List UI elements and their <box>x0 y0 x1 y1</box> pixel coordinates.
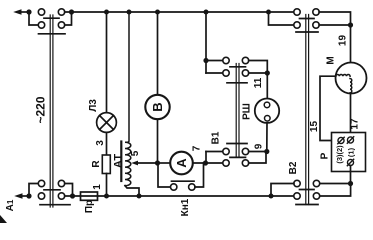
pushbutton Kn1 contacts <box>171 184 196 190</box>
wire L-bend to lower contact (left pole of switch B) <box>29 12 38 25</box>
wire L-bend right side top switch <box>65 12 72 25</box>
motor M field winding <box>336 75 350 77</box>
wire relay bottom lead <box>350 165 352 183</box>
lamp L3 <box>97 113 117 133</box>
wire to socket RSh <box>266 73 268 99</box>
relay terminal (1) <box>347 159 353 165</box>
wire node 19 to motor <box>350 25 352 79</box>
switch V2 lower crossbar <box>296 204 318 206</box>
svg-text:В2: В2 <box>288 161 299 174</box>
wire top rail <box>65 11 294 13</box>
ammeter A <box>170 152 193 175</box>
switch V1 left bracket <box>205 152 207 164</box>
node junction dot 9 <box>264 149 269 154</box>
switch V1 lower section contacts <box>223 148 249 166</box>
svg-text:Р: Р <box>320 152 331 159</box>
relay terminal (2)-side <box>338 137 344 143</box>
switch V2 upper crossbar <box>296 31 318 33</box>
resistor R <box>102 155 110 174</box>
pushbutton Kn1 right leg <box>195 163 204 187</box>
svg-text:1: 1 <box>92 184 103 190</box>
wire ammeter to switch V1 <box>193 162 223 164</box>
switch B bottom section crossbar <box>40 204 70 206</box>
switch V2 link double line <box>306 15 309 205</box>
voltmeter V <box>145 95 169 119</box>
svg-text:7: 7 <box>192 145 203 151</box>
node junction dots on bottom rail <box>104 194 274 199</box>
wire voltmeter to tap wire <box>157 119 159 163</box>
wire lamp branch from top rail <box>106 12 108 113</box>
wire L-bend right side bottom switch <box>65 184 73 197</box>
svg-text:(1): (1) <box>347 147 356 157</box>
node junction dot <box>348 181 353 186</box>
wire top mains lead with arrow <box>13 9 29 15</box>
switch V2 upper bridge bar <box>300 18 315 20</box>
switch V1 link double line <box>236 64 239 158</box>
wire socket to node 9 <box>266 123 268 152</box>
wire lamp to resistor <box>106 132 108 155</box>
svg-text:Пр: Пр <box>84 200 95 213</box>
wire motor left lead to relay terminal <box>320 76 338 140</box>
svg-text:Л3: Л3 <box>88 99 99 112</box>
switch V1 right side wires to node 9 <box>249 151 267 153</box>
node junction dot <box>70 193 75 198</box>
wires to upper section contacts <box>206 60 223 62</box>
svg-text:15: 15 <box>309 121 320 133</box>
wire tap to ammeter <box>158 162 171 164</box>
pushbutton Kn1 bypass left leg <box>158 163 171 187</box>
wire bottom rail left of fuse <box>65 195 81 197</box>
motor M <box>336 63 367 94</box>
wire bottom mains lead with arrow <box>14 193 29 199</box>
node junction dot <box>203 160 208 165</box>
fuse Pr <box>81 192 98 200</box>
switch V1 upper bridge bar <box>230 66 246 68</box>
switch V2 upper section contacts <box>294 9 319 28</box>
wire node to switch V2 lower contacts <box>320 183 351 185</box>
autotransformer AT winding <box>125 12 131 186</box>
autotransformer AT core lines <box>120 142 122 182</box>
wire resistor to bottom rail <box>106 174 108 197</box>
svg-text:А: А <box>174 158 189 168</box>
AT tap arrow <box>131 161 157 166</box>
svg-text:В1: В1 <box>211 131 222 144</box>
relay R box <box>332 133 366 172</box>
node junction dot <box>69 9 74 14</box>
switch V2 upper section wires from top rail <box>269 12 294 25</box>
svg-text:17: 17 <box>350 118 361 130</box>
node junction dot 11 <box>265 70 270 75</box>
svg-text:5: 5 <box>130 150 141 156</box>
switch V1 upper right wires <box>249 61 268 74</box>
relay terminal top-right <box>347 137 353 143</box>
svg-text:11: 11 <box>253 77 264 88</box>
wire voltmeter branch from top rail <box>157 12 159 95</box>
svg-text:19: 19 <box>338 35 349 47</box>
switch V1 upper section branch from top rail <box>205 12 207 73</box>
switch V1 upper section contacts <box>223 57 249 76</box>
switch V2 lower section contacts <box>294 180 320 199</box>
scan artifact bottom-left corner <box>0 215 7 223</box>
svg-text:РШ: РШ <box>242 103 253 120</box>
node junction dot top-left <box>26 9 31 14</box>
svg-text:В: В <box>150 102 165 111</box>
wire motor bottom lead to relay <box>350 94 352 138</box>
node junction dot tap/voltmeter <box>155 160 160 165</box>
socket RSh <box>255 99 279 123</box>
switch V2 upper right wires to node 19 <box>319 12 350 25</box>
switch V1 crossbar <box>227 143 247 145</box>
wire AT bottom lead to bottom rail <box>125 186 139 196</box>
svg-text:9: 9 <box>254 143 265 149</box>
switch B bottom section bridge bar <box>44 189 60 191</box>
switch B mechanical link double line <box>50 15 53 207</box>
svg-text:(3)(2): (3)(2) <box>335 145 344 164</box>
switch V2 lower bridge bar <box>300 189 315 191</box>
wire L-bend to upper contact (bottom pole of switch B) <box>29 184 38 197</box>
svg-text:А1: А1 <box>5 199 16 211</box>
svg-text:АТ: АТ <box>112 154 124 168</box>
svg-text:~220: ~220 <box>34 96 48 123</box>
node junction dot 19 <box>348 22 353 27</box>
wire V2 left bracket <box>271 184 294 197</box>
svg-text:3: 3 <box>95 140 106 146</box>
pushbutton Kn1 bar <box>172 180 195 182</box>
wire V2 lower-right contact loop <box>320 184 351 197</box>
node junction dot bottom-left <box>26 193 31 198</box>
motor M armature winding <box>350 79 352 93</box>
node junction dot <box>203 58 208 63</box>
svg-text:Кн1: Кн1 <box>180 198 191 216</box>
switch B bottom section contact circles <box>38 180 64 199</box>
svg-text:М: М <box>326 56 337 64</box>
wire bottom rail <box>98 195 294 197</box>
switch V1 upper crossbar <box>227 82 247 84</box>
switch B top section bridge bar <box>44 17 59 19</box>
svg-text:R: R <box>91 160 102 168</box>
node junction dots on top rail <box>104 10 271 15</box>
switch B top section crossbar <box>39 33 66 35</box>
switch V1 bridge bar <box>230 156 246 158</box>
switch B top section contact circles <box>38 9 64 28</box>
